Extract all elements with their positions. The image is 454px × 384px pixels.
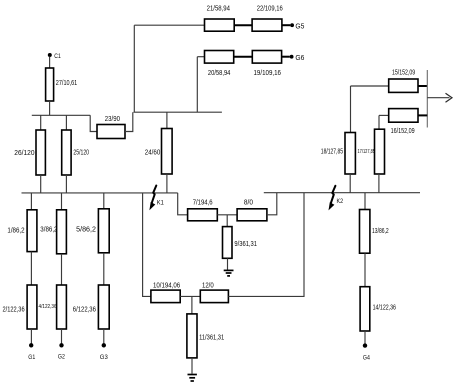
svg-text:G2: G2: [58, 354, 65, 361]
wire resistor 1 to resistor 2: [30, 252, 32, 285]
svg-text:20/58,94: 20/58,94: [208, 70, 231, 77]
bus 2 left segment: [22, 192, 178, 194]
wire junction 7-8 down to resistor 9: [226, 215, 228, 227]
resistor R22: [252, 19, 282, 31]
outgoing line arrow: [427, 97, 449, 99]
resistor R16: [389, 109, 418, 123]
wire resistor 12 right up to bus 2: [228, 193, 304, 297]
wire resistor 14 to node G4: [364, 331, 366, 344]
svg-text:14/122,36: 14/122,36: [373, 305, 396, 312]
svg-text:21/58,94: 21/58,94: [207, 5, 230, 12]
node G4 terminal dot: [363, 343, 367, 347]
resistor R15: [389, 79, 418, 92]
wire bus2 to resistor 3: [61, 193, 63, 210]
bus 1 left segment: [32, 114, 90, 116]
resistor R21: [205, 19, 235, 31]
wire bus2 left down to resistor 10: [143, 193, 151, 297]
wire down from 16-wire to resistor 17: [378, 115, 380, 129]
wire resistor 2 to node G1: [30, 329, 32, 344]
wire bus2 down-left to resistor 7: [178, 193, 188, 215]
wire down from 15-wire to resistor 18: [350, 86, 352, 133]
wire C1 to resistor 27: [49, 57, 51, 69]
svg-text:4/122,36: 4/122,36: [39, 304, 57, 310]
wire junction 10-12 down to resistor 11: [191, 296, 193, 314]
wire resistor 20 to resistor 19: [234, 56, 253, 58]
wire bus1 left down to resistor 23: [90, 115, 97, 131]
svg-text:13/86,2: 13/86,2: [372, 228, 389, 235]
svg-text:27/10,61: 27/10,61: [56, 80, 77, 87]
bus 1 right segment: [134, 111, 222, 113]
ground below resistor 9: [224, 270, 234, 276]
wire resistor 26 to bus 2: [40, 175, 42, 193]
node G6 terminal dot: [290, 55, 294, 59]
svg-text:G6: G6: [295, 55, 304, 62]
node G3 terminal dot: [102, 343, 106, 347]
wire resistor 11 to ground: [191, 358, 193, 374]
wire resistor 27 to bus 1: [49, 101, 51, 115]
wire resistor 18 to bus 2: [349, 174, 351, 193]
svg-text:1/86,2: 1/86,2: [7, 228, 24, 235]
right vertical bus: [426, 70, 428, 128]
wire bus2 to resistor 1: [30, 193, 32, 210]
wire feeder G5 row down to bus 1: [133, 25, 135, 112]
svg-text:10/194,06: 10/194,06: [153, 283, 180, 290]
svg-text:9/361,31: 9/361,31: [234, 241, 257, 248]
wire G6 row to resistor 20: [197, 56, 204, 58]
wire left of resistor 16: [379, 114, 389, 116]
wire resistor 8 up to bus 2 right: [267, 193, 277, 215]
bus 2 right segment: [264, 192, 420, 194]
svg-text:6/122,36: 6/122,36: [73, 306, 96, 313]
wire bus2 to resistor 5: [103, 193, 105, 209]
resistor R8: [237, 209, 267, 221]
resistor R7: [188, 209, 218, 221]
svg-text:12/0: 12/0: [202, 283, 214, 290]
svg-text:19/109,16: 19/109,16: [254, 70, 282, 77]
resistor R11: [187, 314, 197, 358]
wire resistor 13 to resistor 14: [364, 253, 366, 287]
wire resistor 3 to resistor 4: [61, 254, 63, 285]
wire bus2 to resistor 13: [364, 193, 366, 210]
svg-text:11/361,31: 11/361,31: [199, 335, 224, 342]
svg-text:22/109,16: 22/109,16: [257, 5, 283, 12]
wire bus1 right to resistor 24: [166, 112, 168, 128]
wire resistor 7 to resistor 8: [217, 214, 237, 216]
wire resistor 24 to bus 2: [166, 174, 168, 193]
resistor R3: [57, 210, 67, 254]
svg-text:G3: G3: [100, 354, 108, 361]
fault bolt K2: [329, 186, 336, 211]
resistor R24: [162, 129, 173, 175]
node G2 terminal dot: [59, 343, 63, 347]
svg-text:8/0: 8/0: [244, 199, 253, 206]
wire resistor 22 to node G5: [282, 24, 290, 26]
resistor R6: [98, 285, 109, 329]
resistor R27: [46, 68, 54, 101]
node G1 terminal dot: [29, 343, 33, 347]
resistor R18: [345, 133, 355, 175]
resistor R20: [205, 51, 234, 64]
wire resistor 4 to node G2: [61, 329, 63, 344]
wire resistor 25 to bus 2: [65, 175, 67, 193]
resistor R17: [375, 129, 385, 174]
svg-text:C1: C1: [54, 53, 61, 60]
wire resistor 16 to right bus: [418, 114, 427, 116]
resistor R19: [252, 51, 281, 64]
node G5 terminal dot: [290, 23, 294, 27]
wire bus1 to resistor 26: [40, 115, 42, 130]
wire resistor 10 to resistor 12: [180, 295, 200, 297]
wire bus1 to resistor 25: [65, 115, 67, 130]
wire resistor 17 to bus 2: [378, 174, 380, 193]
svg-text:3/86,2: 3/86,2: [40, 227, 57, 234]
svg-text:23/90: 23/90: [105, 116, 120, 123]
svg-text:K2: K2: [337, 198, 344, 205]
svg-text:K1: K1: [157, 199, 164, 206]
fault bolt K1: [149, 186, 156, 211]
resistor R4: [57, 285, 67, 329]
wire left of resistor 15: [351, 85, 389, 87]
wire resistor 21 to resistor 22: [234, 24, 252, 26]
resistor R25: [62, 130, 71, 175]
wire G5 row horizontal: [134, 24, 204, 26]
svg-text:G1: G1: [28, 354, 35, 361]
svg-text:26/120: 26/120: [14, 150, 34, 157]
svg-text:15/152,09: 15/152,09: [392, 69, 415, 76]
resistor R1: [27, 210, 37, 252]
svg-text:17/127,85: 17/127,85: [358, 149, 376, 155]
wire resistor 23 up to bus 1 right: [125, 112, 133, 131]
resistor R14: [360, 287, 370, 331]
svg-text:24/60: 24/60: [145, 150, 161, 157]
wire feeder G6 row down to bus 1: [196, 57, 198, 112]
wire resistor 19 to node G6: [282, 56, 290, 58]
node C1 terminal dot: [48, 53, 52, 57]
svg-text:G5: G5: [295, 24, 304, 31]
ground below resistor 11: [188, 375, 197, 382]
svg-text:25/120: 25/120: [73, 150, 89, 157]
resistor R26: [36, 130, 45, 175]
wire resistor 15 to right bus: [418, 85, 427, 87]
resistor R9: [223, 227, 233, 259]
svg-text:7/194,6: 7/194,6: [193, 199, 213, 206]
svg-text:2/122,36: 2/122,36: [3, 306, 25, 313]
resistor R12: [200, 290, 228, 303]
resistor R10: [151, 290, 180, 303]
resistor R5: [98, 209, 109, 253]
svg-text:18/127,85: 18/127,85: [321, 148, 343, 155]
wire resistor 9 to ground: [227, 258, 229, 270]
wire resistor 6 to node G3: [103, 329, 105, 344]
resistor R13: [360, 210, 370, 254]
wire resistor 5 to resistor 6: [103, 253, 105, 285]
svg-text:16/152,09: 16/152,09: [391, 128, 415, 135]
resistor R23: [97, 125, 125, 139]
resistor R2: [27, 285, 37, 329]
svg-text:G4: G4: [363, 355, 370, 362]
svg-text:5/86,2: 5/86,2: [76, 227, 96, 234]
